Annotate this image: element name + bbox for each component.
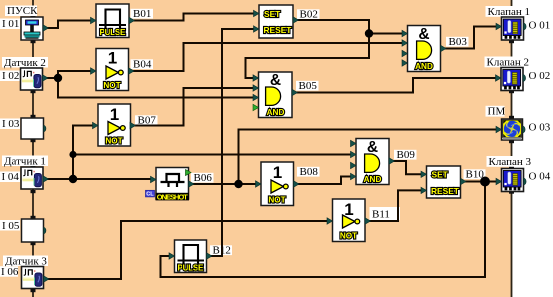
- right rail connector tabs: [509, 14, 514, 194]
- block B12 PULSE: [169, 240, 212, 273]
- label I 03: [0, 118, 20, 130]
- wire B10 out to O04, feedback to B12 in: [161, 182, 499, 278]
- svg-text:1: 1: [110, 105, 119, 124]
- svg-text:B04: B04: [133, 59, 152, 71]
- junction node I04: [69, 175, 77, 183]
- svg-text:Датчик 1: Датчик 1: [4, 155, 46, 167]
- svg-text:NOT: NOT: [105, 137, 122, 146]
- svg-text:RESET: RESET: [431, 186, 460, 196]
- svg-text:Клапан 3: Клапан 3: [489, 156, 532, 168]
- svg-text:B01: B01: [133, 8, 151, 20]
- svg-text:O 01: O 01: [529, 20, 551, 32]
- svg-text:I 03: I 03: [2, 118, 20, 130]
- svg-text:O 03: O 03: [529, 121, 551, 133]
- svg-text:I 02: I 02: [2, 70, 19, 82]
- svg-text:NOT: NOT: [340, 232, 357, 241]
- svg-text:1: 1: [108, 49, 117, 68]
- block B10 SET/RESET: [421, 166, 466, 198]
- label I 01: [0, 18, 20, 30]
- label I 06: [0, 266, 19, 278]
- wire I02 to junction, to B04 in, to B05 in3: [45, 71, 256, 98]
- svg-text:I 05: I 05: [2, 220, 20, 232]
- svg-text:ПМ: ПМ: [488, 106, 506, 118]
- junction node B06 net: [234, 180, 242, 188]
- svg-text:B09: B09: [397, 149, 416, 161]
- label Клапан 1: [486, 6, 530, 18]
- junction node B02 net: [365, 29, 373, 37]
- input I1 ПУСК pushbutton: [21, 17, 49, 40]
- left rail connector tabs: [31, 14, 36, 292]
- block B05 AND: [253, 72, 298, 118]
- svg-text:AND: AND: [364, 175, 382, 184]
- wire B09 to B10 SET: [393, 161, 423, 174]
- output O4 Клапан 3 valve: [496, 169, 526, 192]
- label I 05: [0, 220, 20, 232]
- svg-text:B08: B08: [300, 166, 319, 178]
- input I3 (empty): [21, 118, 46, 139]
- svg-text:Датчик 2: Датчик 2: [4, 57, 46, 69]
- output O1 Клапан 1 valve: [496, 17, 526, 40]
- junction node I02: [54, 74, 62, 82]
- svg-text:I 06: I 06: [1, 266, 19, 278]
- label B06: [191, 172, 214, 184]
- svg-text:ONESHOT: ONESHOT: [157, 192, 188, 201]
- label B05: [296, 80, 319, 92]
- block B04 NOT: [91, 49, 135, 91]
- wire B08 to B09 in4: [298, 177, 353, 185]
- wire B01 to B02 SET: [131, 14, 255, 21]
- svg-text:B05: B05: [299, 80, 318, 92]
- label O 01: [529, 20, 551, 32]
- block B06 ONESHOT: [146, 168, 195, 202]
- svg-text:B03: B03: [449, 36, 468, 48]
- label Клапан 2: [485, 56, 529, 68]
- wire B12 out to B02 RESET: [211, 29, 255, 256]
- svg-text:I 04: I 04: [2, 171, 20, 183]
- wire B05 to O02: [296, 78, 498, 93]
- label Датчик 2: [2, 57, 48, 69]
- label O 02: [529, 70, 551, 82]
- output O3 ПМ fan: [496, 119, 525, 140]
- left input rail: [32, 0, 34, 297]
- wire B11 to B10 RESET: [369, 190, 423, 221]
- label O 03: [529, 121, 551, 133]
- label B03: [446, 36, 469, 48]
- wire I04 net: to B06 in, up to B07 in, branch to B09 in2: [45, 126, 353, 180]
- svg-text:SET: SET: [264, 9, 281, 19]
- svg-text:Клапан 2: Клапан 2: [487, 56, 529, 68]
- output O2 Клапан 2 valve: [496, 68, 526, 91]
- svg-text:1: 1: [273, 163, 282, 182]
- svg-text:B02: B02: [300, 9, 318, 21]
- label I 02: [0, 70, 20, 82]
- block B11 NOT: [327, 199, 371, 242]
- svg-text:O 02: O 02: [529, 70, 551, 82]
- wire I06 to B11 in: [46, 221, 329, 279]
- block B07 NOT: [93, 104, 136, 146]
- block B08 NOT: [256, 162, 300, 206]
- junction node B10 net: [480, 177, 490, 187]
- wire B07 to B05 in2: [132, 88, 255, 126]
- svg-text:B11: B11: [372, 209, 390, 221]
- input I2 Датчик 2 sensor: [21, 68, 49, 90]
- junction node I04 upper: [69, 151, 76, 158]
- svg-text:AND: AND: [415, 62, 433, 71]
- right output rail: [511, 0, 513, 297]
- svg-text:SET: SET: [432, 170, 449, 180]
- svg-text:Клапан 1: Клапан 1: [488, 6, 530, 18]
- wire B03 to O01: [445, 27, 498, 49]
- svg-text:B06: B06: [194, 172, 213, 184]
- label ПУСК: [5, 5, 38, 17]
- wire I01 to B01: [46, 21, 92, 29]
- input I5 (empty): [22, 219, 46, 242]
- svg-text:NOT: NOT: [103, 81, 120, 90]
- label B01: [131, 8, 154, 20]
- svg-text:ПУСК: ПУСК: [7, 5, 38, 17]
- label Клапан 3: [487, 156, 532, 168]
- label O 04: [529, 170, 551, 182]
- input I4 Датчик 1 sensor: [21, 167, 49, 189]
- label B10: [464, 169, 486, 181]
- label B11: [370, 207, 401, 221]
- block B03 AND: [402, 26, 446, 72]
- wire B06 out to B08 in, branch up to O03: [193, 130, 499, 185]
- block B09 AND: [351, 139, 395, 185]
- block B02 SET/RESET: [254, 5, 299, 38]
- label I 04: [0, 171, 20, 183]
- label Датчик 3: [3, 255, 48, 267]
- label Датчик 1: [2, 155, 48, 167]
- input I6 Датчик 3 sensor: [22, 267, 50, 289]
- block B01 PULSE: [91, 4, 135, 38]
- svg-text:PULSE: PULSE: [178, 264, 205, 273]
- label B07: [135, 115, 158, 127]
- svg-text:RESET: RESET: [264, 25, 293, 35]
- label B09: [394, 149, 417, 161]
- svg-text:I 01: I 01: [2, 18, 19, 30]
- svg-text:AND: AND: [267, 108, 285, 117]
- label B12: [210, 245, 232, 257]
- label B08: [297, 166, 320, 178]
- wire B02 out to junction, to B03 in1, loop to B05 in1: [246, 20, 370, 78]
- label ПМ: [486, 106, 506, 118]
- svg-text:NOT: NOT: [268, 196, 285, 205]
- svg-text:CL: CL: [146, 192, 154, 198]
- wire B04 to B03 in2: [131, 43, 405, 71]
- svg-text:PULSE: PULSE: [100, 28, 127, 37]
- label B02: [297, 9, 320, 21]
- label B04: [131, 59, 154, 71]
- svg-text:O 04: O 04: [529, 170, 551, 182]
